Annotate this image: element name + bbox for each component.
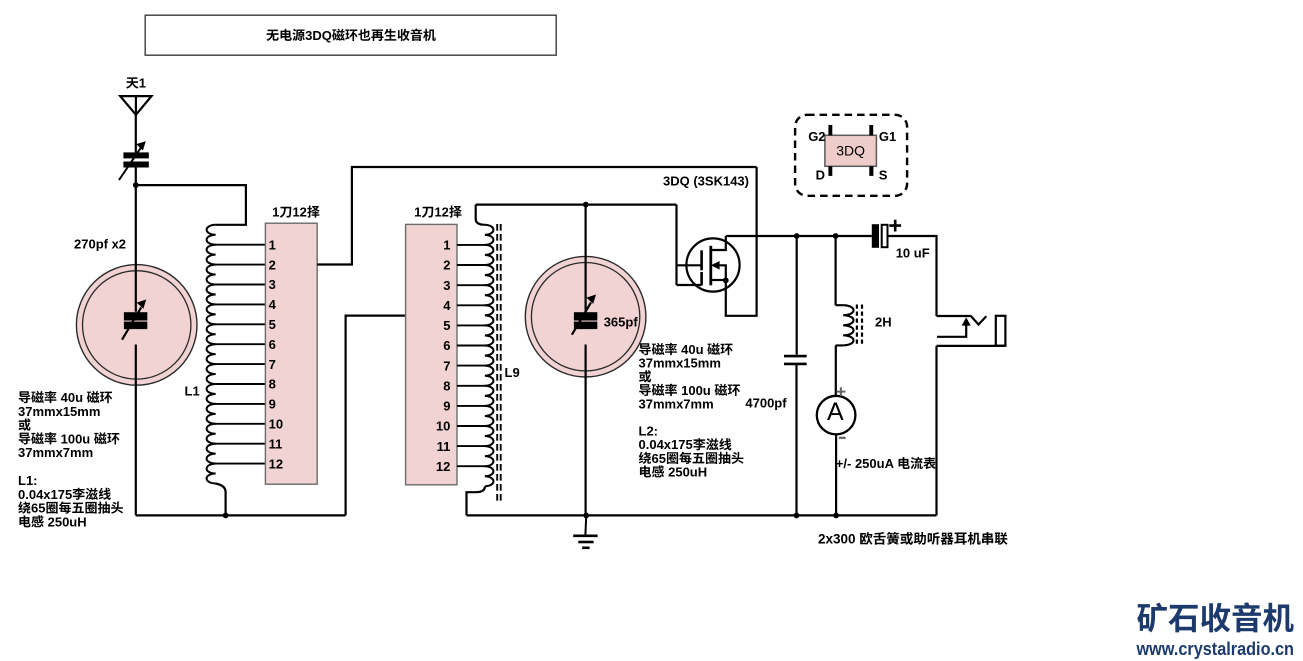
svg-text:3: 3 [269, 277, 276, 292]
svg-text:www.crystalradio.cn: www.crystalradio.cn [1136, 638, 1294, 659]
rotary switch S2 (1 pole 12 throw) [406, 224, 457, 484]
svg-text:12: 12 [269, 456, 283, 471]
wire gate feed from top rail [677, 205, 702, 285]
svg-text:7: 7 [443, 358, 450, 373]
wire choke to meter [835, 345, 837, 395]
svg-text:+/- 250uA: +/- 250uA [836, 456, 897, 471]
L9 label [505, 365, 520, 380]
value label 365pf [604, 315, 639, 330]
svg-text:2: 2 [443, 258, 450, 273]
svg-text:10: 10 [269, 417, 283, 432]
pin stub S [869, 166, 873, 176]
svg-text:250uH: 250uH [665, 464, 708, 479]
L9 tap wires to switch S2 [457, 245, 486, 466]
wire L9 bottom to ground rail [467, 486, 485, 515]
pin label D [816, 167, 825, 182]
svg-text:11: 11 [269, 436, 283, 451]
transistor Q1 3DQ (3SK143) dual-gate MOSFET [686, 236, 739, 292]
svg-text:S: S [879, 167, 888, 182]
switch S1 label 1刀12择 [272, 205, 320, 220]
node junction dot meter bottom [833, 513, 839, 519]
wire antenna to trimmer [135, 115, 137, 153]
rotary switch S1 (1 pole 12 throw) [265, 223, 317, 484]
pin label S [879, 167, 888, 182]
svg-text:365pf: 365pf [604, 315, 639, 330]
L9 core dashed lines [497, 224, 501, 502]
meter + mark [836, 387, 845, 396]
svg-text:G1: G1 [879, 129, 896, 144]
svg-text:L9: L9 [505, 365, 520, 380]
svg-text:7: 7 [269, 357, 276, 372]
switch S2 label 1刀12择 [414, 205, 462, 220]
svg-text:D: D [816, 167, 825, 182]
wire L1 bottom to ground rail [216, 484, 226, 516]
svg-text:1: 1 [139, 76, 146, 91]
wire top rail L9 to gate wire [476, 204, 677, 206]
svg-text:12: 12 [292, 205, 306, 220]
svg-text:270pf x2: 270pf x2 [74, 237, 126, 252]
svg-text:8: 8 [443, 379, 450, 394]
svg-text:6: 6 [269, 337, 276, 352]
title box [145, 15, 556, 55]
Q1 label 3DQ (3SK143) [663, 173, 749, 188]
svg-text:10: 10 [436, 419, 450, 434]
3DQ chip body [825, 135, 877, 166]
variable capacitor C1 270pf x2 (tuning gang) [76, 265, 197, 386]
svg-text:3: 3 [443, 278, 450, 293]
L1 tap wires to switch [215, 245, 266, 464]
C1 capacitor symbol plates [122, 300, 147, 340]
svg-text:3DQ (3SK143): 3DQ (3SK143) [663, 173, 749, 188]
pin stub D [828, 166, 832, 176]
node junction dot rail/2H [833, 233, 839, 239]
node junction dot top of C2 [583, 202, 589, 208]
svg-text:37mmx15mm: 37mmx15mm [18, 404, 100, 419]
value label 270pf x2 [74, 237, 126, 252]
svg-text:11: 11 [437, 439, 451, 454]
3DQ pinout detail box (dashed) [795, 115, 907, 196]
wire node A to L1 top [136, 185, 246, 225]
node junction dot 4700pf bottom [794, 513, 800, 519]
meter - mark [839, 437, 846, 439]
svg-text:5: 5 [269, 317, 276, 332]
svg-text:1: 1 [443, 238, 450, 253]
svg-text:L1:: L1: [18, 473, 38, 488]
svg-text:37mmx7mm: 37mmx7mm [639, 396, 714, 411]
earphone jack J1 [937, 316, 1006, 346]
ground symbol [573, 517, 597, 548]
wire drain output rail [726, 235, 872, 237]
wire node A through C1 down to ground rail [135, 185, 137, 515]
svg-text:4: 4 [443, 298, 451, 313]
jack tip arrow [962, 317, 971, 325]
value label 4700pf [745, 396, 787, 411]
svg-text:3DQ: 3DQ [836, 143, 865, 159]
inductor 2H choke [843, 305, 853, 345]
svg-text:37mmx7mm: 37mmx7mm [18, 445, 93, 460]
svg-text:250uH: 250uH [44, 514, 87, 529]
svg-text:2H: 2H [875, 315, 892, 330]
svg-text:65: 65 [31, 501, 45, 516]
L1 label [185, 384, 200, 399]
wire L9 top lead [476, 205, 485, 225]
crystalradio logo [1136, 602, 1294, 659]
node junction dot ground of C2 [583, 513, 589, 519]
svg-text:40u: 40u [57, 390, 87, 405]
svg-text:1: 1 [272, 205, 279, 220]
antenna label 天1 [126, 76, 146, 91]
2H core dashed lines [857, 305, 862, 347]
capacitor C3 10uF electrolytic [872, 220, 901, 248]
trimmer capacitor 270pf (antenna coupling) [119, 141, 149, 180]
pin stub G1 [869, 125, 873, 135]
svg-text:9: 9 [443, 399, 450, 414]
svg-text:L1: L1 [185, 384, 200, 399]
pin label G2 [808, 129, 825, 144]
variable capacitor C2 365pf [525, 256, 646, 377]
wire MOSFET source to feedback loop [726, 167, 757, 316]
value label 2H [875, 315, 892, 330]
svg-text:2: 2 [269, 257, 276, 272]
coil L9 [485, 225, 494, 487]
svg-text:G2: G2 [808, 129, 825, 144]
wire meter to ground rail [835, 434, 837, 515]
svg-text:3DQ: 3DQ [305, 28, 332, 43]
ammeter M1 [817, 396, 856, 435]
svg-text:37mmx15mm: 37mmx15mm [639, 356, 721, 371]
svg-text:10 uF: 10 uF [896, 246, 930, 261]
svg-text:2x300: 2x300 [818, 532, 859, 547]
node junction dot rail/4700pf [794, 233, 800, 239]
coil L1 [207, 225, 216, 484]
wire C3 to jack [888, 236, 937, 316]
svg-text:1: 1 [414, 205, 421, 220]
node junction dot L1 bottom [223, 513, 229, 519]
L1 spec text block [18, 390, 123, 529]
wire rail to choke [834, 236, 836, 305]
pin label G1 [879, 129, 896, 144]
wire jack sleeve down to rail [935, 346, 937, 516]
ground rail right segment [467, 514, 937, 516]
S1 position numbers 1-12 [269, 237, 283, 471]
S2 position numbers 1-12 [436, 238, 451, 474]
wire trimmer to node A [135, 168, 137, 186]
earphone note 2x300 [818, 532, 1008, 547]
svg-text:4: 4 [269, 297, 277, 312]
node A junction dot [133, 182, 139, 188]
wire S1 tap2 feedback to MOSFET source loop [317, 167, 756, 265]
svg-text:12: 12 [434, 205, 448, 220]
L2 spec text block [639, 342, 744, 479]
node junction dot MOSFET source [723, 277, 729, 283]
svg-text:5: 5 [443, 318, 450, 333]
value label 10 uF [896, 246, 930, 261]
pin stub G2 [828, 125, 832, 135]
capacitor C4 4700pf [784, 236, 807, 515]
svg-text:A: A [827, 398, 844, 426]
C2 capacitor symbol plates [572, 295, 597, 335]
ground rail left segment [136, 514, 346, 516]
svg-text:8: 8 [269, 377, 276, 392]
svg-text:1: 1 [269, 237, 276, 252]
wire C2 top and bottom [584, 205, 586, 516]
meter label +/- 250uA 电流表 [836, 456, 936, 471]
svg-text:9: 9 [269, 397, 276, 412]
svg-text:12: 12 [436, 459, 450, 474]
svg-text:4700pf: 4700pf [745, 396, 787, 411]
svg-text:6: 6 [443, 338, 450, 353]
antenna 天1 [120, 96, 151, 115]
wire S2 pole to ground rail [346, 316, 406, 516]
